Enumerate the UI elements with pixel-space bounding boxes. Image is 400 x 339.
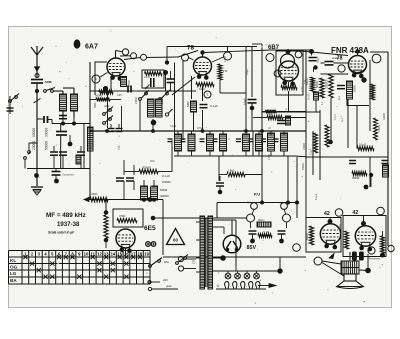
output box 1 [306, 218, 341, 253]
small terminals left of transformer [178, 256, 183, 261]
mains transformer primary [200, 216, 205, 289]
wire cap to tube [334, 62, 349, 64]
terminal out [372, 54, 381, 63]
svg-text:78: 78 [187, 45, 195, 52]
IF2 caps [213, 138, 218, 140]
svg-text:BA: BA [10, 278, 17, 283]
svg-text:10 µΩ: 10 µΩ [359, 143, 366, 147]
svg-text:FNR 438A: FNR 438A [331, 46, 369, 55]
dot lower [364, 185, 369, 190]
svg-text:25000: 25000 [302, 163, 305, 170]
tube V1 6A7 [107, 58, 125, 81]
output transformer second [341, 268, 359, 275]
cap right of 4M [277, 120, 285, 122]
osc box [95, 62, 107, 95]
terminal 1 [92, 75, 100, 83]
dot pu [218, 190, 223, 195]
arrow on bus [84, 197, 89, 201]
IF can stubs bottom [177, 151, 179, 156]
gang vertical 165 [165, 73, 167, 92]
svg-text:0,1µF: 0,1µF [316, 56, 320, 63]
cap series dark [43, 116, 45, 123]
wire v4 top to caps [357, 52, 359, 56]
table header numbers [24, 252, 149, 257]
IF3 caps [249, 138, 254, 140]
IF can pair 3 [243, 134, 250, 151]
mini coil [76, 155, 81, 164]
svg-text:50000: 50000 [45, 141, 49, 150]
svg-text:50000: 50000 [32, 128, 36, 137]
switch pair left [103, 113, 106, 116]
pu volume pot [257, 222, 271, 227]
bus y202 [217, 202, 297, 204]
bus y202 dots [260, 201, 264, 205]
svg-text:350Ω: 350Ω [339, 224, 342, 230]
vert x297 mid [296, 157, 298, 203]
svg-text:220: 220 [193, 259, 196, 264]
svg-text:4µF: 4µF [341, 117, 344, 122]
res v a [320, 78, 324, 98]
bus y157 right [306, 156, 388, 158]
caps mid left [108, 128, 115, 130]
res v mid2 [325, 125, 329, 147]
svg-text:0,1µF: 0,1µF [334, 113, 337, 120]
cathode coil 6A7 [121, 77, 127, 87]
svg-text:1: 1 [217, 284, 219, 288]
svg-text:2 MΩ: 2 MΩ [224, 56, 227, 62]
svg-text:radio: radio [279, 202, 285, 205]
wire y74 right [321, 73, 349, 75]
tube V4 78 [349, 56, 367, 79]
svg-text:AVC: AVC [150, 160, 155, 163]
wire ant down [36, 83, 38, 110]
svg-text:0,1µF: 0,1µF [315, 193, 318, 200]
svg-text:ondes: ondes [332, 56, 340, 60]
res v out left [309, 226, 313, 245]
terminal tr [295, 51, 302, 58]
IF can pair 1 [175, 134, 182, 151]
svg-text:Pieno: Pieno [258, 219, 265, 222]
heater lamp symbols [225, 273, 231, 279]
wire term to tube [189, 58, 194, 61]
wire pu vert [219, 176, 221, 181]
pu dots [250, 239, 255, 244]
avc coils [141, 186, 148, 200]
wire filament [213, 257, 224, 259]
svg-text:MF = 489 kHz: MF = 489 kHz [46, 212, 86, 219]
tube V1 top cap [115, 51, 117, 59]
pu resistor [258, 234, 272, 238]
svg-text:10000: 10000 [135, 97, 138, 104]
res v left of 6E5 [104, 215, 108, 238]
ground [31, 186, 43, 188]
coil after [286, 116, 291, 125]
svg-text:+ B: + B [143, 86, 147, 90]
dot res bottom [380, 253, 385, 258]
svg-text:220: 220 [163, 278, 168, 282]
vert x262 long [261, 112, 263, 203]
IF can stubs top [177, 131, 179, 135]
svg-text:6A7: 6A7 [85, 44, 98, 51]
bus y123.5 [52, 123, 90, 125]
svg-text:200000: 200000 [326, 79, 329, 88]
coil pair mid [148, 99, 155, 117]
IF bottoms wire [174, 155, 295, 157]
antenna insulator circle [35, 74, 39, 78]
vert x368 stub [370, 175, 372, 187]
svg-text:0,1µF: 0,1µF [310, 148, 313, 155]
V3 top cap [286, 49, 291, 54]
screen resistor vertical [218, 64, 222, 80]
svg-text:20000: 20000 [32, 141, 36, 150]
res 5M vertical [311, 77, 315, 92]
box top y46.5 [167, 46, 257, 48]
scan specks [20, 30, 381, 304]
vertical x107 [107, 91, 109, 128]
dots y218 [151, 216, 156, 221]
transformer stubs [196, 221, 200, 223]
tube V5 6E5 [116, 229, 135, 253]
circle 3 [204, 91, 211, 98]
cathode resistor R1 [99, 90, 113, 94]
wire coil bottoms [62, 111, 64, 118]
diag wire [172, 77, 195, 95]
antenna coil L2 [71, 94, 78, 111]
6B7 box [276, 51, 303, 95]
svg-text:OG: OG [10, 264, 18, 269]
svg-text:20000: 20000 [354, 84, 357, 92]
bus junction dots [105, 129, 109, 133]
mixer cap vertical bars [150, 78, 152, 87]
antenna coil L1 [60, 94, 67, 111]
terminal left [182, 54, 189, 61]
vertical x60.7 b [60, 135, 62, 169]
dot right2 [369, 173, 373, 177]
box corner [347, 99, 369, 106]
cap c1 [50, 151, 58, 153]
bus y218 [152, 217, 246, 219]
wire 174 bus [219, 174, 227, 176]
antenna [36, 46, 38, 57]
tube V3 main [279, 61, 299, 86]
terminal a [335, 209, 343, 217]
dot rectifier filament [220, 255, 226, 261]
bus y199 [84, 199, 163, 201]
svg-text:0,1 µF: 0,1 µF [162, 174, 170, 178]
terminal B [377, 207, 385, 215]
springs base line [216, 288, 266, 290]
warning triangle [167, 229, 185, 245]
heater bus [213, 270, 281, 272]
gang vertical 191 [191, 76, 193, 99]
svg-text:10000: 10000 [383, 113, 386, 120]
svg-text:½ Vol: ½ Vol [263, 230, 269, 234]
svg-text:Resistenza: Resistenza [368, 258, 380, 261]
svg-text:Pieno: Pieno [247, 202, 254, 205]
IF1 caps [181, 138, 186, 140]
V4 extra arc [350, 69, 365, 73]
terminal PU L [247, 214, 255, 222]
wire to ground [36, 175, 38, 186]
wire v2 down [202, 86, 204, 101]
wire set [90, 99, 96, 101]
coil bottoms antenna [62, 111, 64, 114]
coil right edge [383, 165, 389, 177]
blob mark [74, 39, 81, 48]
grid cap circle c [141, 54, 147, 60]
dot below [250, 106, 255, 111]
6E5 res 4700 [117, 219, 137, 223]
wire transformer to dot [359, 269, 368, 272]
terminal right [224, 52, 232, 60]
svg-text:0,1µF: 0,1µF [170, 125, 177, 128]
pu wires [250, 222, 252, 228]
vert from IF to PU [218, 156, 220, 181]
svg-text:33419: 33419 [144, 77, 151, 79]
6E5 box [113, 209, 143, 227]
cap pair mid [337, 85, 345, 87]
left box edge [89, 62, 91, 200]
svg-text:0,05: 0,05 [119, 145, 121, 150]
dot above tube a [328, 219, 333, 224]
caps right row [349, 160, 356, 162]
junction [34, 173, 39, 178]
tap vertical right [235, 220, 237, 266]
cap v mid [216, 182, 224, 184]
mains transformer secondary [208, 216, 213, 289]
vertical x84 [83, 124, 85, 169]
svg-text:85V: 85V [247, 245, 257, 251]
svg-text:4µF: 4µF [338, 95, 341, 100]
mid switch [139, 98, 142, 101]
cap c2 [59, 151, 67, 153]
output transformer [341, 261, 359, 268]
bus y168.5 [27, 168, 90, 170]
switch S2 [29, 142, 38, 144]
svg-text:ARM.: ARM. [103, 105, 110, 108]
res 50000 [96, 98, 110, 102]
junction y199 [148, 197, 153, 202]
terminal mid [293, 244, 301, 252]
speaker magnet [344, 274, 356, 281]
svg-text:6E5: 6E5 [144, 225, 156, 232]
wire gridline right [147, 56, 179, 59]
svg-text:400000: 400000 [162, 180, 171, 184]
coil small right [314, 92, 319, 100]
svg-text:50000: 50000 [160, 188, 168, 192]
res 1M [227, 173, 245, 177]
mixer arrow [145, 85, 150, 90]
vertical x60.7 [60, 124, 62, 132]
wires 6B7 area [251, 103, 253, 131]
speaker cone [337, 281, 363, 287]
bottom bus 257 [163, 256, 306, 258]
wire left bus vertical [36, 110, 38, 177]
vert x253 [252, 131, 254, 156]
bus under 6A7 y91 [90, 90, 196, 92]
svg-text:Compensa: Compensa [62, 174, 74, 177]
coupling cap [325, 61, 334, 63]
gang vertical 183 [182, 61, 184, 140]
terminal bottom left [314, 257, 322, 265]
avc resistor 300000 [139, 169, 158, 173]
coil pair dot [151, 120, 157, 126]
wire y119 to cap [37, 118, 43, 120]
heater springs row [225, 282, 260, 289]
svg-text:50000: 50000 [306, 233, 309, 240]
coil v4 [347, 81, 353, 99]
antenna arrow [34, 67, 39, 71]
cap 0.1 [200, 104, 208, 106]
pu cap R [278, 230, 286, 232]
svg-text:0,006: 0,006 [269, 154, 271, 160]
IF4 caps [274, 138, 279, 140]
dot right [313, 65, 317, 69]
vert x306 to box [305, 157, 307, 218]
svg-text:400000: 400000 [160, 194, 169, 198]
gang circle small [165, 113, 168, 116]
wire 6E5 [105, 200, 107, 214]
svg-text:60: 60 [173, 238, 178, 243]
svg-text:5000: 5000 [373, 84, 376, 90]
switch S1 waveband [44, 90, 47, 93]
wire diag to speaker [322, 263, 344, 277]
main bus y131 [90, 130, 306, 132]
gridcap wires [116, 51, 123, 52]
dot right of transformer [365, 268, 371, 274]
pu circle R [281, 203, 288, 210]
res v right mid [374, 118, 378, 140]
wire tube bottom [110, 76, 112, 91]
arrow into box [329, 254, 334, 259]
6B7 top box line [271, 49, 310, 51]
tap 227 [213, 226, 225, 228]
scanned schematic panel [9, 27, 392, 308]
svg-text:P.U: P.U [254, 192, 260, 197]
svg-text:KL: KL [10, 258, 16, 263]
svg-text:4700: 4700 [119, 214, 125, 218]
svg-text:2 M: 2 M [223, 69, 227, 73]
svg-text:5000: 5000 [187, 101, 190, 107]
right blob cap [309, 49, 314, 54]
grid cap circle a [122, 49, 128, 55]
pu circle wires [252, 210, 254, 215]
pu circle L [251, 203, 258, 210]
svg-text:LG: LG [10, 271, 17, 276]
svg-text:B+ 90: B+ 90 [308, 93, 311, 100]
junction ant [35, 89, 39, 93]
cap plates mid [56, 131, 67, 133]
wires avc [124, 171, 139, 173]
svg-text:1937-38: 1937-38 [57, 221, 80, 228]
avc caps [116, 177, 124, 179]
vert x288 mid [287, 156, 289, 203]
wire y112 6B7 bottom [262, 111, 320, 113]
cap hplates 167 [167, 78, 175, 80]
mixer dot [163, 70, 168, 75]
tube V2 78 [194, 57, 212, 80]
big dot heater [277, 268, 282, 273]
switch legend table [9, 251, 151, 285]
res small [266, 110, 277, 114]
svg-text:1 MΩ: 1 MΩ [228, 169, 234, 173]
verticals right top [387, 52, 389, 131]
svg-text:42: 42 [353, 210, 359, 216]
dot x70 [68, 142, 73, 147]
legend switches right of table [149, 265, 152, 268]
transformer tap top [213, 219, 237, 221]
tube V3 small [281, 54, 295, 68]
IF can pair 4 [268, 133, 275, 151]
arrow right [269, 284, 276, 288]
wire term to transformer [322, 261, 341, 264]
output box 2 [343, 216, 386, 257]
res v right edge [381, 236, 385, 253]
dot on bus91 [103, 86, 108, 91]
svg-text:5000: 5000 [94, 102, 97, 108]
cap c3 [77, 151, 85, 153]
svg-text:mf: mf [268, 128, 271, 130]
rectifier tube V6 [223, 235, 241, 253]
svg-text:14: 14 [111, 252, 116, 257]
terminal M [266, 54, 274, 62]
wire to ant coil [53, 90, 63, 92]
res v b [329, 74, 333, 98]
V5 wire down [125, 248, 127, 257]
mixer box [142, 70, 164, 88]
box top stub [166, 47, 168, 63]
res v mid1 [314, 133, 318, 153]
dot above tube b [361, 221, 366, 226]
res v between [345, 231, 349, 249]
cap bars on bus91 [127, 86, 129, 93]
svg-text:10000: 10000 [378, 125, 381, 132]
cap left pair [248, 99, 257, 101]
terminal M2 [338, 65, 345, 72]
tube V8 42 [355, 226, 375, 252]
cathode resistor 78 [196, 83, 214, 87]
wire 236 to heater bus [235, 266, 237, 271]
wire 2M down [367, 254, 369, 270]
cap below bus [52, 171, 61, 173]
vert x370 lower [369, 157, 371, 187]
terminal PU R [283, 214, 291, 222]
terminal 2M [368, 247, 375, 254]
terminal small right [388, 245, 394, 251]
slash mark [34, 99, 41, 104]
tube V7 42 [320, 224, 340, 250]
dots 6E5 [104, 210, 109, 215]
svg-text:Scala valori in µF: Scala valori in µF [48, 231, 75, 235]
svg-text:19: 19 [144, 252, 149, 257]
tube V2 top cap [202, 54, 204, 58]
svg-text:gram.: gram. [166, 284, 173, 288]
78 stage box right edge [251, 47, 253, 98]
gang vertical 174 [174, 63, 176, 141]
svg-text:470µF: 470µF [197, 128, 204, 130]
svg-text:AM: AM [164, 260, 169, 264]
coil on left box line [88, 127, 94, 151]
dot mid [328, 140, 333, 145]
svg-text:30000: 30000 [45, 128, 49, 137]
bus segment right [296, 203, 298, 219]
res 50000 right [352, 172, 367, 176]
aux switch [176, 262, 179, 265]
speaker lip [336, 287, 364, 289]
gridline continue [203, 50, 271, 53]
bus resistor [90, 197, 108, 201]
res v plate load [371, 84, 375, 100]
